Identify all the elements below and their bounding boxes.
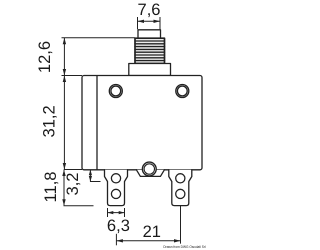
threaded bushing [135, 38, 165, 63]
dim 3,2 line [89, 170, 91, 182]
svg-text:Drawn from DWG Osculati Srl: Drawn from DWG Osculati Srl [163, 245, 206, 249]
svg-text:21: 21 [143, 223, 161, 241]
svg-text:31,2: 31,2 [41, 105, 59, 137]
terminal left [105, 170, 128, 206]
arrow 21 right [174, 239, 181, 242]
arrow 6,3 right [119, 211, 125, 214]
arrow 12,6 down [63, 69, 66, 76]
bottom boss [136, 162, 164, 176]
mounting collar [129, 64, 171, 76]
dim 21 tick left [115, 234, 117, 246]
arrow 31,2 down [63, 163, 66, 170]
svg-text:3,2: 3,2 [64, 173, 82, 196]
push button cap [138, 30, 161, 38]
svg-text:11,8: 11,8 [42, 172, 60, 203]
arrow 12,6 up [63, 38, 66, 45]
dim 31,2 line [63, 76, 65, 170]
dim 7,6 line [138, 20, 161, 22]
svg-text:6,3: 6,3 [107, 217, 130, 235]
body top extension [62, 75, 83, 77]
arrow 3,2 down [89, 176, 92, 182]
breaker body [82, 76, 202, 170]
dim 3,2 extension [90, 181, 101, 183]
arrow 7,6 right [154, 20, 161, 23]
body seam line [96, 76, 98, 169]
arrow 3,2 up [89, 170, 92, 176]
svg-text:7,6: 7,6 [138, 1, 161, 19]
dim 21 line [116, 240, 180, 242]
dim 11,8 line [63, 170, 65, 206]
dim 6,3 line [108, 212, 125, 214]
dim 6,3 tick right [124, 208, 126, 217]
arrow 21 left [116, 239, 123, 242]
dim 21 extension right [180, 206, 182, 244]
arrow 11,8 down [62, 199, 65, 206]
dim 12,6 line [63, 38, 65, 76]
rivet left [109, 85, 122, 98]
arrow 7,6 left [138, 20, 145, 23]
dim 6,3 tick left [107, 208, 109, 217]
rivet right [176, 85, 189, 98]
svg-text:12,6: 12,6 [36, 41, 54, 73]
arrow 6,3 left [108, 211, 114, 214]
body bottom extension [64, 169, 82, 171]
dim 11,8 extension bottom [64, 205, 94, 207]
terminal right [169, 170, 192, 206]
dim 7,6 extension lines [137, 17, 139, 29]
arrow 31,2 up [63, 76, 66, 83]
arrow 11,8 up [62, 170, 65, 177]
dim 12,6 extension top [62, 37, 136, 39]
